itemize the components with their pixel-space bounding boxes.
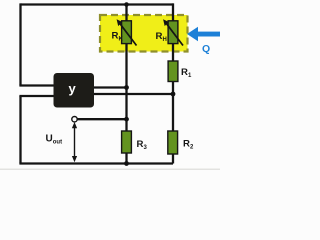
junction dot node b <box>171 92 176 97</box>
junction dot top rail <box>124 2 129 7</box>
amplifier U1 (y box) <box>54 73 95 108</box>
junction dot node a <box>124 85 129 90</box>
wire: bottom rail <box>19 162 173 164</box>
svg-text:Q: Q <box>202 43 210 55</box>
terminal circle (output tap) <box>72 117 77 122</box>
voltage arrow Uout (double headed) <box>72 122 77 162</box>
svg-text:y: y <box>69 81 77 96</box>
flow arrow (blue) <box>187 27 220 41</box>
bottom edge artifact line <box>0 169 220 170</box>
resistor RH (hot wire, variable) <box>163 19 183 45</box>
wire: lower input to amplifier <box>19 95 56 97</box>
wire: upper input to amplifier <box>19 84 56 86</box>
wire: right bridge branch vertical <box>172 3 174 163</box>
resistor RK (compensation, variable) <box>117 19 137 45</box>
wire: amplifier lower output <box>93 93 173 95</box>
wire: left bridge branch vertical <box>125 3 127 163</box>
wire: output tap to circle <box>77 118 127 120</box>
resistor R2 <box>168 131 178 154</box>
wire: amplifier upper output <box>93 86 127 88</box>
wire: left vertical (lower) <box>19 96 21 164</box>
resistor R3 <box>122 131 132 153</box>
resistor R1 <box>168 61 178 82</box>
wire: left vertical (upper) <box>19 3 21 85</box>
junction dot bottom rail <box>124 161 129 166</box>
wire: top rail <box>21 3 174 5</box>
flow region highlight (yellow dashed box) <box>100 15 188 52</box>
junction dot tap node <box>124 117 129 122</box>
